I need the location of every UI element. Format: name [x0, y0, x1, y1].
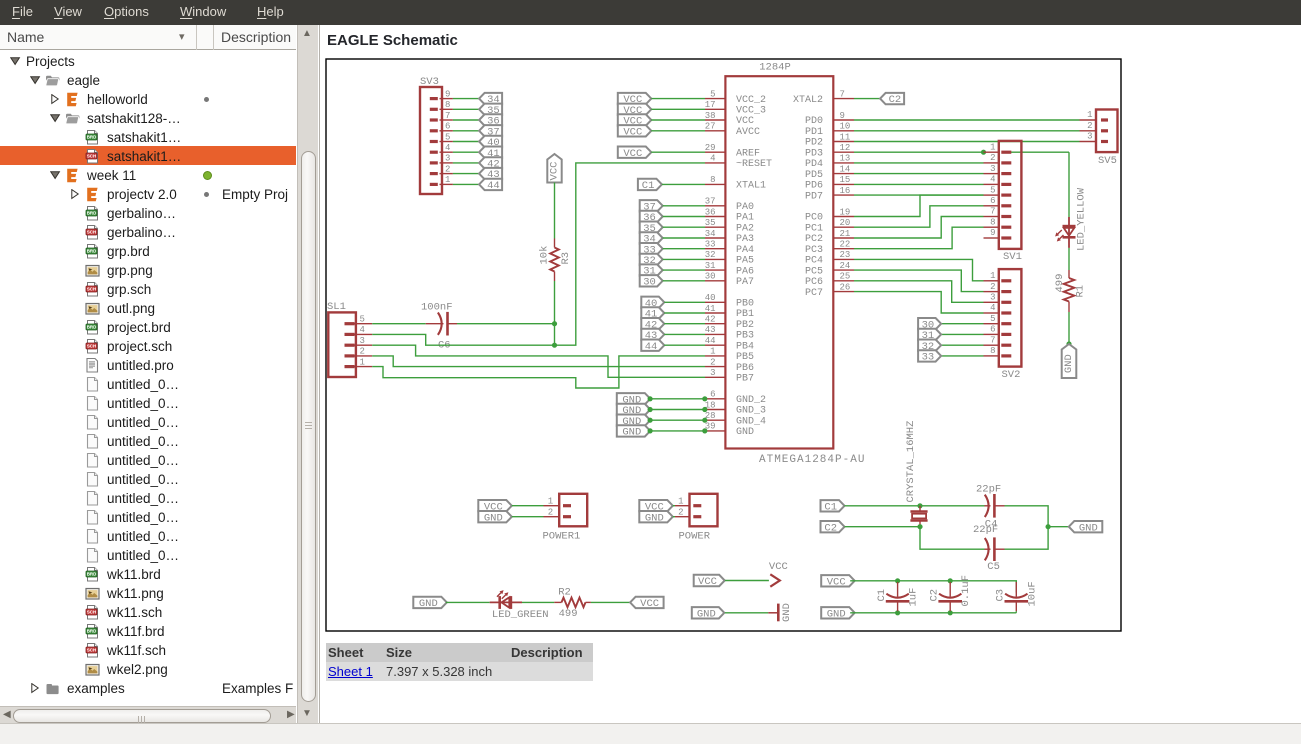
svg-text:SL1: SL1	[327, 301, 346, 313]
svg-text:8: 8	[990, 217, 995, 227]
resistor R1	[1063, 270, 1074, 312]
wire C1 tag to XTAL1 pin 8	[661, 183, 704, 185]
wire C2 tag to crystal node	[844, 526, 920, 528]
wire VCC to C3	[1015, 581, 1017, 582]
connector SV1	[983, 141, 1021, 249]
svg-text:10k: 10k	[538, 246, 550, 265]
wire C4 to GND corner	[994, 505, 1004, 507]
svg-text:GND: GND	[644, 512, 663, 524]
connector POWER1	[543, 494, 587, 527]
svg-text:PD0: PD0	[804, 116, 822, 127]
svg-text:1: 1	[445, 175, 450, 185]
svg-text:41: 41	[704, 304, 715, 314]
wire VCC tags to U1 power pins	[651, 99, 705, 131]
junctions GND wires	[647, 396, 707, 433]
ground tag GND (LED_GREEN)	[413, 597, 447, 610]
svg-text:GND: GND	[483, 512, 502, 524]
svg-text:10: 10	[839, 122, 850, 132]
svg-text:C2: C2	[824, 522, 837, 534]
svg-text:499: 499	[558, 608, 577, 620]
svg-text:VCC: VCC	[623, 148, 642, 160]
wire SL1.2 to PB6	[372, 356, 705, 367]
wire C2 to GND	[949, 611, 951, 613]
svg-text:SV1: SV1	[1003, 251, 1022, 263]
net labels 40-44 (PB0-PB4)	[641, 297, 664, 353]
wire VCC to C2	[949, 581, 951, 582]
svg-text:44: 44	[644, 341, 657, 353]
wire PD3 to SV1.1 junction	[854, 151, 984, 153]
junction R1-GND	[1066, 341, 1071, 346]
svg-text:PD6: PD6	[804, 181, 822, 192]
svg-text:19: 19	[839, 207, 850, 217]
svg-text:CRYSTAL_16MHZ: CRYSTAL_16MHZ	[905, 421, 917, 503]
capacitor C4	[984, 494, 994, 518]
svg-text:PB5: PB5	[736, 352, 754, 363]
svg-text:PA7: PA7	[736, 277, 754, 288]
wire PC4 to SV2.1	[854, 259, 984, 280]
svg-text:9: 9	[839, 111, 844, 121]
wire LED branch drop	[1068, 152, 1070, 217]
supply tag VCC (bypass)	[821, 575, 855, 588]
svg-text:PA4: PA4	[736, 245, 754, 256]
svg-text:8: 8	[445, 100, 450, 110]
svg-text:15: 15	[839, 175, 850, 185]
svg-text:GND_2: GND_2	[736, 395, 766, 406]
wire C6 to RESET junction	[457, 323, 555, 325]
svg-text:12: 12	[839, 143, 850, 153]
svg-text:C2: C2	[928, 589, 940, 602]
svg-text:1: 1	[1087, 110, 1092, 120]
wire R2 to VCC tag	[590, 601, 629, 603]
svg-text:5: 5	[359, 315, 364, 325]
svg-text:6: 6	[990, 196, 995, 206]
U1 left pin stubs with numbers and names	[704, 89, 771, 438]
svg-text:PC6: PC6	[804, 277, 822, 288]
svg-text:11: 11	[839, 132, 850, 142]
svg-text:~RESET: ~RESET	[736, 159, 772, 170]
wire PC3 to SV1.9	[854, 227, 984, 249]
svg-text:POWER1: POWER1	[542, 531, 580, 543]
svg-text:GND: GND	[1078, 522, 1097, 534]
svg-text:XTAL2: XTAL2	[792, 95, 822, 106]
wire VCC to C1	[896, 581, 898, 582]
wire PD2 to SV5.3	[854, 141, 1080, 143]
svg-text:3: 3	[359, 336, 364, 346]
svg-text:PD5: PD5	[804, 170, 822, 181]
svg-text:2: 2	[710, 357, 715, 367]
svg-text:29: 29	[704, 143, 715, 153]
ground tag GND (R1)	[1061, 344, 1076, 378]
wire crystal node to C4	[920, 505, 985, 507]
svg-text:PC1: PC1	[804, 223, 822, 234]
svg-text:43: 43	[704, 325, 715, 335]
svg-text:7: 7	[839, 89, 844, 99]
svg-text:VCC_3: VCC_3	[736, 106, 766, 117]
wire C3 to GND	[1015, 611, 1017, 613]
power symbol GND bar	[768, 604, 778, 622]
junction RESET/C6	[551, 321, 556, 326]
LED LED_YELLOW	[1055, 217, 1075, 248]
svg-text:5: 5	[990, 314, 995, 324]
svg-text:1284P: 1284P	[759, 62, 791, 74]
wire C1 to GND	[896, 611, 898, 613]
capacitor C6	[425, 312, 456, 336]
svg-text:4: 4	[710, 154, 715, 164]
svg-text:42: 42	[704, 315, 715, 325]
svg-text:PB3: PB3	[736, 331, 754, 342]
svg-text:PA0: PA0	[736, 202, 754, 213]
capacitor C3 bypass	[1004, 582, 1028, 611]
svg-text:AVCC: AVCC	[736, 127, 760, 138]
svg-text:PC7: PC7	[804, 288, 822, 299]
svg-text:GND: GND	[622, 427, 641, 439]
svg-text:23: 23	[839, 250, 850, 260]
capacitor C1 bypass	[885, 582, 909, 611]
wire SL1.3 to PB7	[372, 345, 705, 377]
wire GND rail	[850, 612, 1016, 614]
svg-text:LED_GREEN: LED_GREEN	[491, 609, 548, 621]
svg-text:GND_3: GND_3	[736, 406, 766, 417]
svg-text:2: 2	[990, 153, 995, 163]
svg-text:3: 3	[1087, 132, 1092, 142]
svg-text:3: 3	[990, 164, 995, 174]
connector SV3	[420, 87, 453, 194]
svg-text:37: 37	[704, 197, 715, 207]
svg-text:30: 30	[704, 272, 715, 282]
svg-text:PC0: PC0	[804, 213, 822, 224]
wire GND tag to GND symbol	[724, 612, 767, 614]
wire ~RESET pin to net	[554, 163, 705, 345]
wire PC7 to SV2.4	[854, 292, 984, 313]
svg-text:27: 27	[704, 122, 715, 132]
svg-text:SV2: SV2	[1001, 369, 1020, 381]
svg-text:1: 1	[990, 271, 995, 281]
svg-text:PA6: PA6	[736, 266, 754, 277]
wire XTAL2 to C2 tag	[854, 98, 880, 100]
svg-text:PC4: PC4	[804, 256, 822, 267]
junction crystal GND	[1045, 524, 1050, 529]
svg-text:6: 6	[990, 325, 995, 335]
wire VCC to R3	[553, 183, 555, 239]
wires tags to POWER1	[511, 506, 543, 517]
svg-text:44: 44	[487, 180, 500, 192]
svg-text:7: 7	[990, 335, 995, 345]
svg-text:14: 14	[839, 164, 850, 174]
op-amp U1 ATMEGA1284P IC body	[725, 76, 833, 448]
svg-text:5: 5	[445, 132, 450, 142]
svg-text:4: 4	[445, 143, 450, 153]
junction crystal top	[917, 503, 922, 508]
supply tag GND (net marker)	[691, 607, 724, 620]
wire R3 to RESET net	[553, 281, 555, 324]
svg-text:32: 32	[704, 250, 715, 260]
wires GND tags to U1 ground pins	[650, 399, 705, 431]
wire crystal bottom to C5	[920, 527, 985, 550]
svg-text:PD7: PD7	[804, 191, 822, 202]
ground tag GND (crystal)	[1068, 521, 1102, 534]
svg-text:1: 1	[710, 347, 715, 357]
svg-text:GND_4: GND_4	[736, 416, 766, 427]
svg-text:36: 36	[704, 207, 715, 217]
svg-text:PB6: PB6	[736, 363, 754, 374]
supply tags VCC x4 (pins 5,17,38,27)	[617, 93, 651, 138]
wire SL1.4 to RESET net	[372, 334, 554, 345]
wire R1 to GND	[1068, 312, 1070, 344]
wires net labels to PA0-PA7	[662, 206, 704, 281]
connector SV5	[1079, 110, 1117, 153]
svg-text:PD2: PD2	[804, 138, 822, 149]
LED LED_GREEN	[489, 590, 521, 609]
svg-text:44: 44	[704, 336, 715, 346]
svg-text:25: 25	[839, 272, 850, 282]
svg-text:R1: R1	[1074, 285, 1086, 298]
svg-text:VCC_2: VCC_2	[736, 95, 766, 106]
svg-text:6: 6	[445, 122, 450, 132]
svg-text:22: 22	[839, 240, 850, 250]
svg-text:GND: GND	[736, 427, 754, 438]
svg-text:4: 4	[359, 325, 364, 335]
svg-text:VCC: VCC	[548, 162, 560, 181]
svg-text:GND: GND	[418, 598, 437, 610]
wire PD1 to SV5.2	[854, 130, 1080, 132]
svg-text:24: 24	[839, 261, 850, 271]
svg-text:PB7: PB7	[736, 374, 754, 385]
wire PC1 to SV1.7	[854, 206, 984, 227]
resistor R2	[554, 598, 591, 608]
junctions VCC rail	[895, 578, 900, 583]
wire PD6 to SV1.4	[854, 183, 984, 185]
net labels 30-33 at SV2	[918, 318, 941, 364]
svg-text:GND: GND	[781, 603, 793, 622]
wire SL1.1 to PB5	[372, 356, 705, 388]
svg-text:PC2: PC2	[804, 234, 822, 245]
svg-text:C5: C5	[987, 561, 1000, 573]
svg-text:31: 31	[704, 261, 715, 271]
capacitor C5	[984, 537, 994, 561]
wire LED to R1	[1068, 248, 1070, 270]
net label C2 (crystal)	[820, 521, 844, 534]
svg-text:8: 8	[990, 346, 995, 356]
svg-text:3: 3	[710, 368, 715, 378]
svg-text:PD4: PD4	[804, 159, 822, 170]
svg-text:33: 33	[921, 352, 934, 364]
wire GND tag to LED_GREEN	[445, 601, 489, 603]
svg-text:38: 38	[704, 111, 715, 121]
power symbol VCC arrow	[770, 574, 780, 586]
wire PD0 to SV5.1	[854, 119, 1080, 121]
svg-text:1: 1	[359, 357, 364, 367]
svg-text:21: 21	[839, 229, 850, 239]
connector POWER	[675, 494, 718, 527]
svg-text:8: 8	[710, 175, 715, 185]
svg-text:30: 30	[643, 276, 656, 288]
U1 right pin stubs with numbers and names	[792, 89, 853, 298]
svg-text:PB2: PB2	[736, 320, 754, 331]
svg-text:0.1uF: 0.1uF	[960, 575, 972, 607]
svg-text:PA5: PA5	[736, 256, 754, 267]
ground tags GND x4 (pins 6,18,28,39)	[616, 393, 650, 438]
menu bar	[0, 0, 1301, 25]
svg-text:6: 6	[710, 390, 715, 400]
svg-text:2: 2	[445, 164, 450, 174]
svg-text:9: 9	[445, 89, 450, 99]
svg-text:35: 35	[704, 218, 715, 228]
junctions GND rail	[895, 610, 900, 615]
svg-text:R2: R2	[558, 587, 571, 599]
svg-text:C2: C2	[888, 94, 901, 106]
svg-text:PC5: PC5	[804, 266, 822, 277]
svg-text:22pF: 22pF	[973, 524, 998, 536]
wires tags to POWER	[672, 506, 674, 517]
wires net labels 30-33 to SV2	[941, 324, 983, 356]
svg-text:C1: C1	[824, 501, 837, 513]
svg-text:5: 5	[710, 89, 715, 99]
connector SL1	[328, 312, 372, 377]
wire PC6 to SV2.3	[854, 281, 984, 303]
svg-text:C1: C1	[641, 180, 654, 192]
svg-text:13: 13	[839, 154, 850, 164]
svg-text:VCC: VCC	[623, 126, 642, 138]
wire VCC tag to AREF pin 29	[651, 151, 705, 153]
resistor R3	[550, 239, 559, 282]
svg-text:2: 2	[990, 282, 995, 292]
junction PD3 node	[980, 150, 985, 155]
svg-text:5: 5	[990, 185, 995, 195]
svg-text:PD1: PD1	[804, 127, 822, 138]
svg-text:4: 4	[990, 175, 995, 185]
net labels 37-30 (PA0-PA7)	[639, 200, 662, 288]
wire PD4 to SV1.2	[854, 162, 984, 164]
junction crystal bottom	[917, 524, 922, 529]
left tree panel	[0, 25, 319, 724]
svg-text:SV3: SV3	[420, 76, 439, 88]
svg-text:4: 4	[990, 303, 995, 313]
wire VCC rail	[850, 581, 1016, 593]
svg-text:GND: GND	[696, 608, 715, 620]
svg-text:7: 7	[990, 207, 995, 217]
svg-text:C1: C1	[875, 589, 887, 602]
wires SV3 pins to net labels	[452, 99, 478, 185]
wire junction to GND tag	[1048, 526, 1069, 528]
svg-text:2: 2	[1087, 121, 1092, 131]
svg-text:GND: GND	[1063, 354, 1075, 373]
svg-text:VCC: VCC	[640, 598, 659, 610]
svg-text:PB0: PB0	[736, 299, 754, 310]
svg-text:SV5: SV5	[1098, 155, 1117, 167]
svg-text:3: 3	[445, 154, 450, 164]
right panel	[319, 25, 1301, 723]
wire PD3 junction through SV1 to LED branch	[1010, 151, 1069, 153]
svg-text:VCC: VCC	[768, 561, 787, 573]
net label C2 (XTAL2)	[880, 93, 904, 106]
svg-text:XTAL1: XTAL1	[736, 181, 766, 192]
wire VCC tag to VCC symbol	[724, 580, 768, 582]
svg-text:1: 1	[678, 497, 683, 507]
svg-text:R3: R3	[560, 252, 572, 265]
wire RESET junction drop	[553, 324, 555, 346]
wire PC5 to SV2.2	[854, 270, 984, 292]
svg-text:100nF: 100nF	[421, 302, 453, 314]
svg-text:VCC: VCC	[826, 576, 845, 588]
svg-text:VCC: VCC	[698, 576, 717, 588]
svg-text:17: 17	[704, 100, 715, 110]
svg-text:3: 3	[990, 293, 995, 303]
supply tags VCC/GND (POWER1)	[478, 500, 512, 524]
wire LED_GREEN to R2	[522, 601, 554, 603]
net label C1 (XTAL1)	[637, 179, 661, 192]
svg-text:C3: C3	[994, 589, 1006, 602]
junction RESET net	[551, 343, 556, 348]
supply tag GND (bypass)	[821, 607, 855, 620]
svg-text:9: 9	[990, 228, 995, 238]
connector SV2	[983, 269, 1021, 367]
svg-text:PC3: PC3	[804, 245, 822, 256]
svg-text:16: 16	[839, 186, 850, 196]
svg-text:LED_YELLOW: LED_YELLOW	[1075, 187, 1087, 251]
supply tags VCC/GND (POWER)	[639, 500, 673, 524]
svg-text:34: 34	[704, 229, 715, 239]
svg-text:PD3: PD3	[804, 148, 822, 159]
svg-text:1: 1	[990, 142, 995, 152]
wire PD5 to SV1.3	[854, 173, 984, 175]
wire SL1.5 to C6	[372, 323, 426, 325]
svg-text:ATMEGA1284P-AU: ATMEGA1284P-AU	[759, 454, 865, 466]
svg-text:PA3: PA3	[736, 234, 754, 245]
svg-text:PB4: PB4	[736, 341, 754, 352]
svg-text:26: 26	[839, 282, 850, 292]
wires net labels to PB0-PB4	[664, 302, 705, 345]
svg-text:2: 2	[359, 347, 364, 357]
svg-text:PA1: PA1	[736, 213, 754, 224]
svg-text:499: 499	[1054, 274, 1066, 293]
wire PD7 to SV1.5	[854, 194, 984, 196]
supply tag VCC (net marker)	[693, 575, 724, 588]
wire PC2 to SV1.8	[854, 217, 984, 239]
net labels 34-44 at SV3	[479, 93, 502, 192]
svg-text:GND: GND	[826, 608, 845, 620]
supply tag VCC (LED_GREEN)	[630, 597, 664, 610]
schematic sheet frame	[326, 59, 1121, 631]
svg-text:10uF: 10uF	[1026, 581, 1038, 606]
wire C1 tag to crystal node	[844, 505, 920, 507]
svg-text:2: 2	[547, 508, 552, 518]
svg-text:40: 40	[704, 293, 715, 303]
svg-text:VCC: VCC	[736, 116, 754, 127]
svg-text:20: 20	[839, 218, 850, 228]
supply tag VCC (AREF)	[617, 147, 651, 160]
power symbol VCC (R3 top)	[547, 154, 561, 183]
net label C1 (crystal)	[820, 500, 844, 513]
crystal Q1 CRYSTAL_16MHZ	[910, 506, 927, 527]
svg-text:2: 2	[678, 508, 683, 518]
svg-text:PB1: PB1	[736, 309, 754, 320]
svg-text:1: 1	[547, 497, 552, 507]
svg-text:PA2: PA2	[736, 223, 754, 234]
svg-text:1uF: 1uF	[907, 588, 919, 607]
svg-text:33: 33	[704, 240, 715, 250]
svg-text:POWER: POWER	[678, 531, 710, 543]
capacitor C2 bypass	[938, 582, 962, 611]
wire PC0 to SV1.6	[854, 195, 984, 216]
svg-text:22pF: 22pF	[976, 484, 1001, 496]
svg-text:AREF: AREF	[736, 148, 760, 159]
svg-text:7: 7	[445, 111, 450, 121]
